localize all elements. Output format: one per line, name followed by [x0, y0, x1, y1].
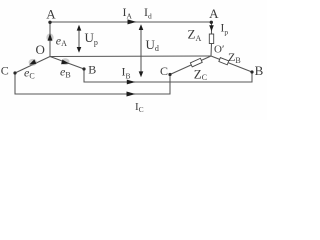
svg-text:ZA: ZA — [188, 27, 202, 43]
svg-text:eA: eA — [56, 34, 67, 49]
svg-text:Up: Up — [85, 30, 98, 47]
svg-text:O′: O′ — [214, 43, 224, 55]
svg-text:C: C — [160, 64, 168, 78]
svg-text:IB: IB — [122, 65, 131, 81]
svg-text:eB: eB — [60, 65, 71, 80]
svg-text:IA: IA — [123, 5, 133, 21]
svg-text:Id: Id — [144, 5, 152, 21]
svg-text:Ud: Ud — [146, 37, 159, 53]
svg-text:C: C — [1, 64, 9, 78]
svg-text:A: A — [46, 7, 56, 22]
svg-text:ZB: ZB — [228, 50, 241, 65]
svg-text:B: B — [88, 63, 96, 77]
svg-text:B: B — [255, 63, 264, 78]
svg-text:Ip: Ip — [221, 23, 229, 37]
svg-text:eC: eC — [24, 66, 35, 81]
svg-text:IC: IC — [135, 101, 144, 114]
svg-text:ZC: ZC — [194, 67, 207, 83]
svg-text:O: O — [36, 42, 45, 57]
svg-text:A: A — [209, 6, 219, 21]
